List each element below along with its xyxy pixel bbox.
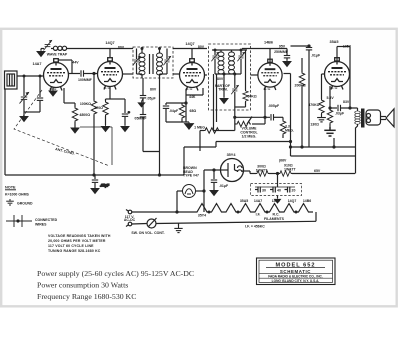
svg-text:14Q7: 14Q7 (288, 199, 297, 203)
svg-text:AC-DC: AC-DC (124, 218, 136, 222)
svg-text:NOTE: NOTE (5, 186, 16, 190)
svg-text:14Q7: 14Q7 (105, 41, 114, 45)
svg-text:TRIM.: TRIM. (218, 88, 228, 92)
svg-text:FADA RADIO & ELECTRIC CO., INC: FADA RADIO & ELECTRIC CO., INC. (268, 274, 323, 278)
svg-text:20,000 OHMS PER VOLT METER: 20,000 OHMS PER VOLT METER (48, 239, 106, 243)
svg-text:Power supply (25-60 cycles AC): Power supply (25-60 cycles AC) 95-125V A… (37, 269, 194, 278)
svg-text:1WATT: 1WATT (256, 168, 268, 172)
svg-text:1/2 MEG.: 1/2 MEG. (242, 135, 257, 139)
svg-text:MEG.: MEG. (285, 129, 294, 133)
svg-text:35A5: 35A5 (329, 40, 338, 44)
svg-text:80V: 80V (217, 77, 224, 81)
svg-text:35Y4: 35Y4 (227, 153, 237, 157)
svg-text:117 VOLT 60 CYCLE LINE: 117 VOLT 60 CYCLE LINE (48, 244, 94, 248)
svg-text:50KΩ: 50KΩ (248, 95, 257, 99)
svg-text:+: + (128, 110, 130, 114)
svg-text:250MMF: 250MMF (274, 50, 289, 54)
svg-text:14A7: 14A7 (254, 199, 262, 203)
svg-text:CONNECTED: CONNECTED (35, 218, 58, 222)
svg-text:35Y4: 35Y4 (198, 214, 206, 218)
svg-text:100MMF: 100MMF (78, 78, 93, 82)
svg-text:.03μF: .03μF (335, 112, 345, 116)
svg-text:.05μF: .05μF (147, 97, 157, 101)
svg-text:Power consumption 30 Watts: Power consumption 30 Watts (37, 281, 128, 290)
svg-text:05MMF: 05MMF (135, 117, 148, 121)
svg-text:.01μF: .01μF (219, 184, 229, 188)
svg-text:14Q7: 14Q7 (272, 199, 281, 203)
svg-text:MODEL 652: MODEL 652 (276, 263, 316, 269)
svg-text:35A5: 35A5 (240, 199, 248, 203)
svg-text:5.8V: 5.8V (327, 96, 335, 100)
svg-text:68Ω: 68Ω (190, 109, 197, 113)
svg-text:LONG ISLAND CITY, N.Y. U.S.A.: LONG ISLAND CITY, N.Y. U.S.A. (272, 279, 320, 283)
svg-text:14Q7: 14Q7 (185, 42, 194, 46)
svg-text:SCHEMATIC: SCHEMATIC (280, 269, 311, 274)
svg-text:TYPE #47: TYPE #47 (183, 174, 199, 178)
svg-text:.01μF: .01μF (311, 54, 321, 58)
svg-text:220Ω: 220Ω (94, 106, 103, 110)
svg-text:83V: 83V (343, 100, 350, 104)
svg-text:4800Ω: 4800Ω (79, 113, 90, 117)
svg-text:SW. ON VOL. CONT.: SW. ON VOL. CONT. (131, 231, 165, 235)
svg-text:100KΩ: 100KΩ (80, 102, 91, 106)
svg-text:80V: 80V (150, 88, 157, 92)
svg-text:GROUND: GROUND (17, 202, 33, 206)
svg-text:30: 30 (262, 189, 266, 193)
svg-text:14A7: 14A7 (32, 62, 41, 66)
svg-text:K=1000 OHMS: K=1000 OHMS (5, 193, 29, 197)
svg-text:105V: 105V (343, 45, 352, 49)
svg-text:I.F. = 456KC: I.F. = 456KC (245, 225, 265, 229)
svg-text:65V: 65V (314, 169, 321, 173)
svg-text:80V: 80V (198, 45, 205, 49)
svg-text:80V: 80V (118, 46, 125, 50)
svg-text:130Ω: 130Ω (310, 123, 319, 127)
svg-text:TUNING RANGE 528-1680 KC: TUNING RANGE 528-1680 KC (48, 249, 101, 253)
svg-text:95V: 95V (279, 45, 286, 49)
svg-text:14B6: 14B6 (264, 41, 273, 45)
svg-text:FILAMENTS: FILAMENTS (264, 217, 285, 221)
svg-text:WIRES: WIRES (35, 223, 47, 227)
svg-text:Frequency Range 1680-530 KC: Frequency Range 1680-530 KC (37, 292, 136, 301)
svg-text:1WATT: 1WATT (284, 168, 296, 172)
svg-text:.04μF: .04μF (169, 109, 179, 113)
svg-text:200KΩ: 200KΩ (295, 84, 306, 88)
svg-text:470KΩ: 470KΩ (308, 103, 319, 107)
svg-text:VOLTAGE READINGS TAKEN WITH: VOLTAGE READINGS TAKEN WITH (48, 234, 111, 238)
svg-text:40: 40 (277, 189, 281, 193)
svg-text:20: 20 (292, 189, 296, 193)
svg-text:.005μF: .005μF (268, 104, 280, 108)
svg-text:.05μF: .05μF (100, 184, 110, 188)
svg-text:I.F.: I.F. (256, 213, 261, 217)
svg-text:44V: 44V (72, 61, 79, 65)
svg-text:WAVE TRAP: WAVE TRAP (47, 53, 68, 57)
svg-text:(66V: (66V (279, 159, 287, 163)
svg-text:R.C.: R.C. (273, 213, 280, 217)
svg-text:1 MEG.: 1 MEG. (194, 126, 206, 130)
svg-text:44K: 44K (189, 95, 196, 99)
svg-text:14B6: 14B6 (303, 199, 311, 203)
